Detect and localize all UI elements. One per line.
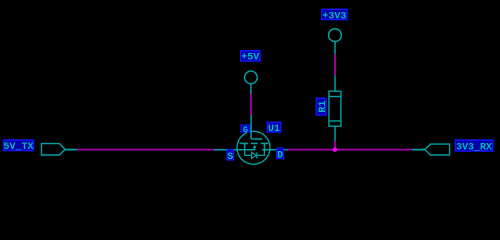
bulk arrow <box>253 145 257 150</box>
power port +5V circle <box>245 71 258 84</box>
+5V stub <box>250 84 252 94</box>
svg-text:U1: U1 <box>268 124 280 135</box>
port P1 (5V_TX pentagon) <box>42 144 66 155</box>
wire Q1 drain to 3V3_RX <box>288 149 413 151</box>
port label 5V_TX <box>3 140 33 153</box>
svg-text:+3V3: +3V3 <box>322 11 346 22</box>
label +5V <box>241 51 260 64</box>
diode bar <box>256 152 258 158</box>
diode triangle <box>252 152 257 158</box>
label G <box>241 125 250 135</box>
wire R1 to net <box>334 141 336 149</box>
wire 5V_TX to Q1 source <box>77 149 214 151</box>
svg-text:3V3_RX: 3V3_RX <box>456 142 492 153</box>
port label 3V3_RX <box>455 140 493 153</box>
power port +3V3 circle <box>329 29 342 42</box>
svg-text:5V_TX: 5V_TX <box>3 142 33 153</box>
label +3V3 <box>322 9 347 22</box>
svg-text:S: S <box>227 152 233 163</box>
diode to drain tick <box>257 150 265 155</box>
svg-text:+5V: +5V <box>241 53 259 64</box>
+3V3 stub <box>334 42 336 55</box>
label D <box>277 148 284 161</box>
pin S lead <box>214 149 255 151</box>
wire +5V to gate <box>250 94 252 115</box>
channel dash left <box>240 142 248 144</box>
channel dash middle <box>251 142 258 144</box>
port P2 stub <box>412 149 425 151</box>
gate bar <box>251 138 263 140</box>
label U1 <box>267 122 281 135</box>
svg-text:R1: R1 <box>318 101 329 113</box>
resistor R1 body <box>329 91 341 126</box>
channel dash right <box>261 142 269 144</box>
port P2 (3V3_RX pentagon) <box>425 144 450 155</box>
port P1 stub <box>65 149 77 151</box>
junction <box>333 147 338 152</box>
pin D lead <box>262 149 288 151</box>
transistor U1 body circle <box>237 131 270 164</box>
body diode loop <box>245 150 252 155</box>
svg-text:D: D <box>277 151 283 162</box>
source tick <box>244 143 246 150</box>
drain tick <box>263 143 265 150</box>
label R1 (vertical) <box>316 98 329 115</box>
resistor R1 top pin <box>334 75 336 91</box>
resistor R1 bottom pin <box>334 126 336 141</box>
label S <box>227 150 234 163</box>
wire +3V3 to R1 <box>334 55 336 76</box>
svg-text:G: G <box>243 125 248 135</box>
gate pin vertical <box>250 115 252 139</box>
